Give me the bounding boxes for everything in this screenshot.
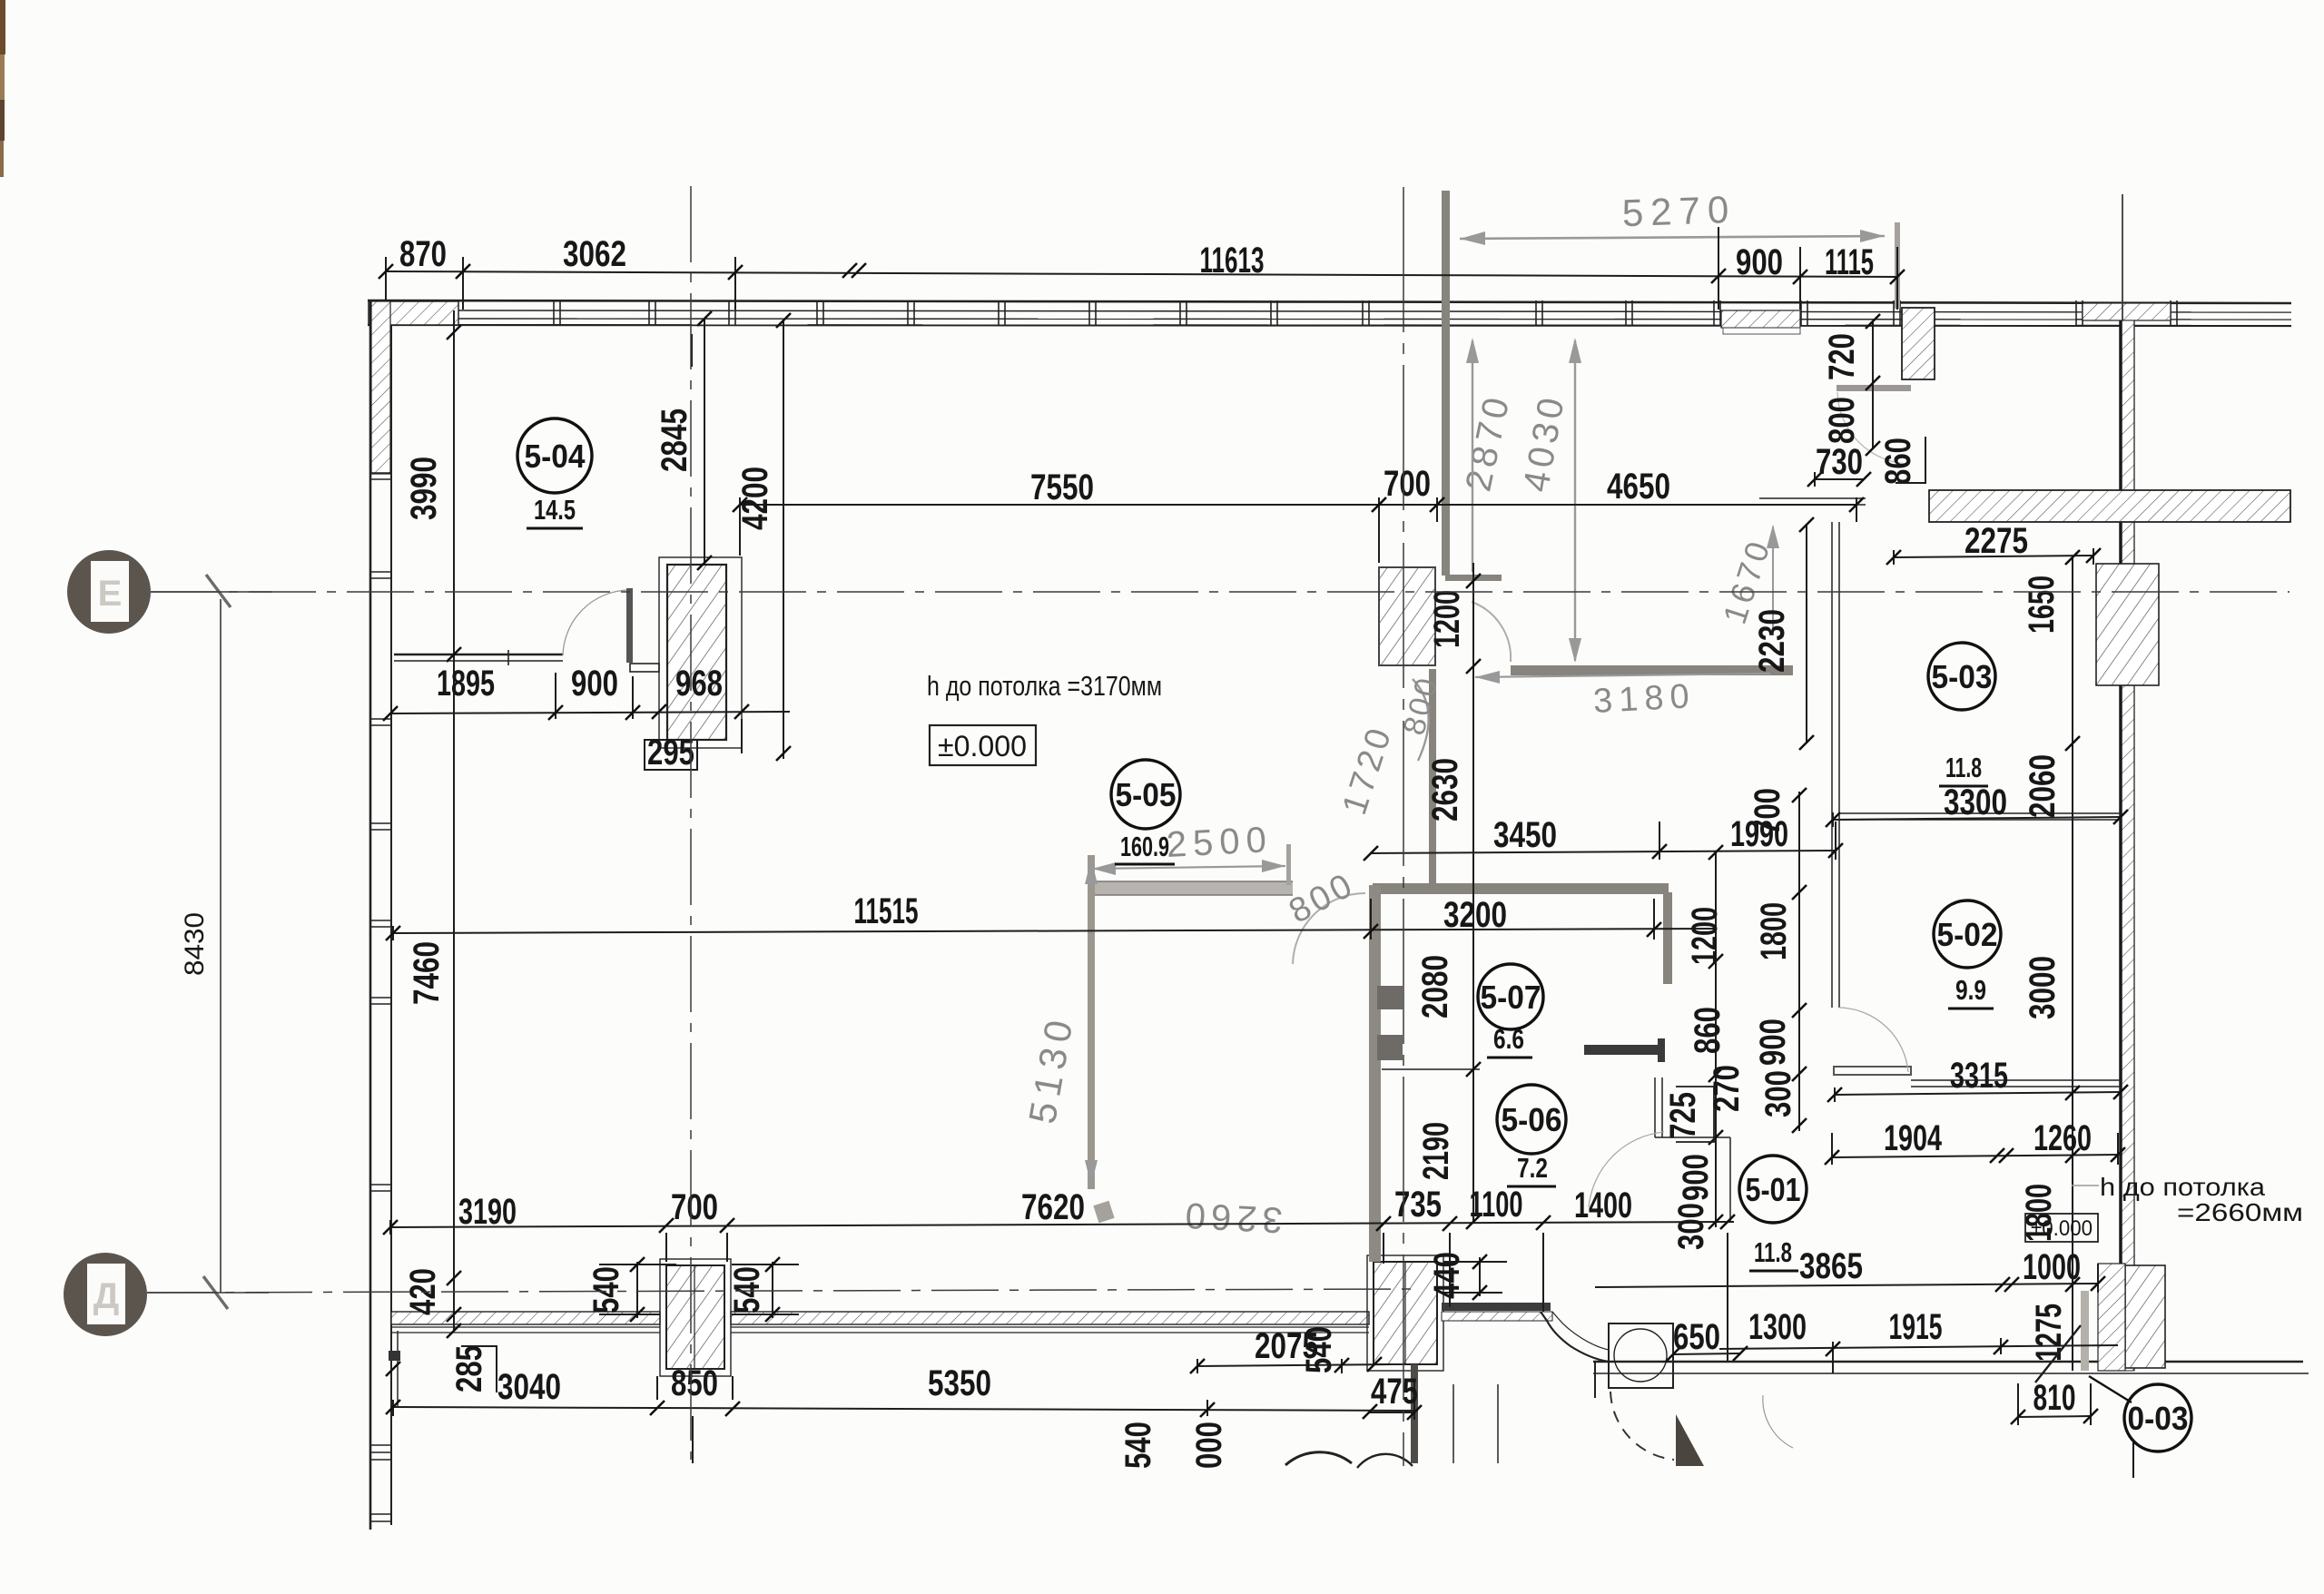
3990/7460/420 vertical line x500 — [453, 310, 455, 1331]
svg-text:=2660мм: =2660мм — [2177, 1198, 2303, 1226]
break on 1904 — [1990, 1148, 2004, 1163]
svg-text:160.9: 160.9 — [1120, 831, 1169, 862]
room label 5-05 — [1111, 760, 1180, 864]
east exterior wall — [2121, 320, 2134, 1371]
svg-text:8430: 8430 — [180, 912, 210, 976]
interior thick hatched wall (top of 5-03) — [1929, 490, 2290, 522]
svg-text:2500: 2500 — [1166, 820, 1274, 865]
glazed shaft box in room 5-04 — [659, 557, 742, 748]
475 dim — [1370, 1412, 1414, 1413]
long bottom chain y1349 — [390, 1222, 1734, 1227]
810 dim y1560 — [2018, 1416, 2091, 1417]
svg-text:900: 900 — [1676, 1154, 1716, 1201]
dim 295 boxed — [645, 733, 697, 772]
svg-text:5-02: 5-02 — [1937, 916, 1998, 953]
svg-text:5-06: 5-06 — [1502, 1101, 1562, 1138]
svg-text:3040: 3040 — [497, 1367, 561, 1407]
svg-text:1115: 1115 — [1825, 242, 1874, 282]
south exterior wall band (left of SW column) — [391, 1312, 660, 1333]
svg-text:3300: 3300 — [1944, 782, 2007, 822]
3315 ticks — [1827, 1087, 1842, 1102]
room label 5-01 — [1739, 1156, 1807, 1271]
svg-text:735: 735 — [1394, 1185, 1442, 1225]
SE hatched column — [2125, 1265, 2165, 1368]
svg-text:2845: 2845 — [655, 408, 694, 472]
handwritten 2500 — [1092, 820, 1291, 885]
3300 dim y902 — [1833, 817, 2121, 820]
top chain extension lines — [385, 257, 387, 300]
dim 285 boxed — [449, 1345, 497, 1392]
lower-floor door arc left of 5-01 — [1763, 1395, 1793, 1448]
SW hatched column with casing — [660, 1259, 731, 1376]
svg-text:900: 900 — [1736, 242, 1783, 282]
x1890 ticks — [1709, 845, 1723, 860]
1904/1260 dim y1273 — [1832, 1155, 2118, 1157]
door arc 5-01 entry — [1589, 1132, 1664, 1207]
chain y939 ticks — [1364, 846, 1378, 861]
730 ticks — [1807, 472, 1822, 487]
svg-text:700: 700 — [1384, 464, 1431, 504]
chain y1026 ticks — [386, 926, 400, 940]
grid axis vertical x1546 — [1403, 187, 1404, 1466]
entry door dashed arc bottom right — [1610, 1392, 1674, 1460]
svg-text:540: 540 — [586, 1266, 626, 1314]
handwritten 5130 (rotated) — [1020, 859, 1098, 1186]
north band window mullions — [554, 300, 2177, 325]
1895/900/968 dim line y784 — [390, 712, 790, 713]
5-03 / 5-02 divider wall — [1839, 813, 2121, 820]
540 column ticks — [630, 1257, 645, 1272]
svg-text:800: 800 — [1822, 397, 1862, 444]
handwritten 3180 dim — [1475, 671, 1770, 721]
svg-text:3315: 3315 — [1950, 1056, 2008, 1096]
x1982 ticks — [1792, 788, 1807, 802]
svg-text:3450: 3450 — [1493, 815, 1557, 855]
svg-text:3200: 3200 — [1443, 895, 1507, 935]
3300 ticks — [1826, 812, 1840, 827]
dim 1275 with slash — [2029, 1304, 2081, 1382]
svg-text:14.5: 14.5 — [534, 494, 576, 526]
svg-text:1915: 1915 — [1889, 1307, 1943, 1347]
handwritten 5270 with dim arrows — [1460, 188, 1900, 309]
3315 dim y1204 — [1835, 1092, 2121, 1095]
5-02 / 5-01 divider wall — [1911, 1080, 2121, 1087]
thin wall stub left of 5-03 hatched wall — [1759, 498, 1866, 505]
svg-text:5-07: 5-07 — [1481, 979, 1541, 1016]
svg-text:Е: Е — [98, 574, 123, 614]
room label 5-03 — [1928, 643, 1995, 786]
svg-text:870: 870 — [399, 234, 447, 274]
diagonal gray axis ticks for 8430 — [203, 575, 231, 1309]
2075/540 chain y1503 — [1197, 1364, 1392, 1366]
dark riser bar below S-mid column — [1411, 1364, 1418, 1463]
svg-text:±0.000: ±0.000 — [938, 730, 1027, 763]
pencil wall: hall top vertical (x~1592) — [1442, 191, 1450, 576]
svg-text:11515: 11515 — [854, 891, 919, 931]
door to 5-02 (leaf + swing) — [1834, 1008, 1911, 1075]
pencil door swing (800 opening into 5-05) — [1293, 893, 1365, 964]
720/800 vertical x2063 — [1872, 321, 1874, 448]
svg-text:±0.000: ±0.000 — [2031, 1216, 2093, 1241]
svg-text:1904: 1904 — [1884, 1118, 1943, 1158]
note: ceiling height 2660 — [2072, 1173, 2303, 1226]
svg-text:1260: 1260 — [2033, 1118, 2092, 1158]
svg-text:540: 540 — [1299, 1326, 1339, 1373]
dim 860 (top right, bracket) — [1878, 437, 1925, 485]
svg-text:6.6: 6.6 — [1493, 1023, 1524, 1055]
pencil wall: 3180 top of 5-01 zone — [1511, 665, 1793, 675]
dark door triangle bottom right — [1676, 1414, 1704, 1466]
svg-text:9.9: 9.9 — [1955, 974, 1986, 1006]
grid axis vertical x761 — [690, 186, 692, 1460]
svg-text:1300: 1300 — [1748, 1307, 1807, 1347]
svg-text:300: 300 — [1758, 1070, 1798, 1117]
pencil wall: right of 5-07 — [1663, 892, 1672, 984]
svg-text:2060: 2060 — [2023, 754, 2063, 818]
elevation box 0.000 (right) — [2025, 1214, 2098, 1242]
chain y1349 ticks — [383, 1220, 398, 1235]
svg-text:3260: 3260 — [1179, 1195, 1284, 1240]
west wall corner hatched pier — [371, 301, 390, 474]
south exterior wall (room 5-01, bottom edge) — [1593, 1362, 2309, 1373]
handwritten smudge right of 7620 — [1093, 1201, 1114, 1224]
hatched window pier top right — [2083, 303, 2171, 320]
tick marks (45deg) — [379, 263, 2128, 1424]
2080/2190 chain x1623 — [1472, 563, 1474, 1224]
right interior chain x2283 — [2072, 557, 2073, 1371]
handwritten 2870 (rotated) with arrow line — [1458, 338, 1518, 572]
pencil wall below junction column — [1429, 669, 1436, 883]
2275 dim y614 — [1894, 556, 2093, 557]
break mark on y297 — [842, 263, 857, 278]
lower-floor second arc (cut) — [1357, 1454, 1413, 1468]
top chain dim line y297 — [386, 271, 1897, 277]
vertical dimension texts — [180, 333, 2081, 1469]
east hatched column (mid, room 5-03/5-02) — [2096, 564, 2159, 685]
west band window mullions — [370, 473, 391, 1521]
bottom chain y1550 — [393, 1407, 1414, 1411]
1300/1915 ticks — [1826, 1342, 1840, 1356]
810 ticks — [2011, 1410, 2025, 1424]
small dark block on west wall below — [389, 1351, 400, 1361]
svg-text:3990: 3990 — [404, 457, 444, 520]
svg-text:h до потолка: h до потолка — [2100, 1173, 2265, 1201]
right chain x2283 ticks — [2065, 550, 2080, 565]
1904/1260 ticks — [1825, 1150, 1839, 1165]
730 dim y528 — [1815, 478, 1864, 480]
svg-text:3190: 3190 — [458, 1192, 517, 1232]
entry door gray band in east wall — [2081, 1291, 2089, 1371]
NE wall pier below window band — [1902, 308, 1935, 379]
svg-text:730: 730 — [1816, 442, 1863, 482]
svg-text:900: 900 — [571, 664, 618, 704]
misc extension below 850 — [692, 1416, 694, 1463]
svg-text:3180: 3180 — [1592, 677, 1697, 721]
room 5-04 south wall with door — [394, 650, 563, 665]
svg-text:720: 720 — [1822, 333, 1862, 380]
svg-text:1200: 1200 — [1427, 590, 1467, 648]
handwritten paren — [1413, 679, 1429, 761]
dark door frame blocks on 5-06 west wall — [1377, 986, 1403, 1009]
svg-text:4650: 4650 — [1607, 467, 1670, 507]
chain y297 ticks — [379, 264, 393, 279]
axis E marker — [67, 550, 151, 634]
svg-text:475: 475 — [1371, 1372, 1418, 1412]
room label 5-07 — [1478, 964, 1543, 1058]
svg-text:2080: 2080 — [1415, 955, 1455, 1018]
washer box — [1609, 1323, 1673, 1388]
y784 ticks — [383, 706, 398, 721]
8430 vertical line x243 — [220, 599, 222, 1293]
2230 chain x1990 — [1806, 525, 1807, 743]
pencil wall: top of 5-07/5-06 — [1373, 883, 1669, 894]
axis D line — [147, 1289, 1412, 1293]
room label 5-04 — [517, 418, 592, 528]
5-06 south wall (dark) — [1442, 1303, 1552, 1321]
4200 vertical line x863 — [783, 320, 784, 759]
grid axis vertical x2338 — [2122, 194, 2123, 320]
x2063 ticks — [1866, 314, 1880, 329]
pencil wall: west of 5-07/5-06 — [1369, 885, 1381, 1262]
svg-text:2275: 2275 — [1965, 521, 2028, 561]
svg-text:700: 700 — [671, 1187, 718, 1227]
svg-text:900: 900 — [1753, 1018, 1793, 1066]
svg-text:3865: 3865 — [1799, 1246, 1863, 1286]
svg-text:11.8: 11.8 — [1754, 1236, 1792, 1268]
svg-text:440: 440 — [1427, 1252, 1467, 1299]
x1623 ticks — [1466, 1062, 1481, 1077]
svg-text:1275: 1275 — [2029, 1304, 2069, 1362]
niche wall right of 5-06 — [1655, 1077, 1730, 1222]
svg-text:285: 285 — [449, 1345, 489, 1392]
svg-text:000: 000 — [1189, 1422, 1229, 1469]
svg-text:5350: 5350 — [928, 1363, 991, 1403]
svg-text:5-01: 5-01 — [1746, 1171, 1801, 1208]
svg-text:1100: 1100 — [1470, 1185, 1523, 1225]
1300/1915 dim y1483 — [1719, 1345, 2118, 1349]
svg-text:300: 300 — [1671, 1203, 1711, 1250]
door 5-07 top-right dark leaf — [1584, 1045, 1663, 1055]
door 5-04 leaf and swing — [563, 588, 659, 672]
svg-text:5-04: 5-04 — [525, 438, 586, 475]
440 ticks near S-mid column — [1479, 1257, 1481, 1296]
svg-text:7620: 7620 — [1021, 1187, 1085, 1227]
svg-text:2190: 2190 — [1416, 1122, 1456, 1180]
svg-text:1895: 1895 — [437, 664, 495, 704]
west exterior window-wall band — [370, 300, 391, 1530]
pencil wall: 2500 partition (horizontal band) — [1095, 881, 1293, 895]
svg-text:860: 860 — [1878, 438, 1918, 485]
7550/700/4650 dim line y555 — [740, 504, 1856, 506]
2275 ticks — [1886, 550, 1901, 565]
room label 5-02 — [1934, 900, 2001, 1009]
3865 ticks + break — [2091, 1276, 2105, 1291]
south exterior wall band (between columns) — [731, 1312, 1369, 1333]
lower-floor room circle arc 4-04 (cut) — [1285, 1452, 1352, 1465]
svg-text:810: 810 — [2033, 1378, 2076, 1418]
5-07 right chain x1890 — [1715, 852, 1717, 1227]
svg-text:2230: 2230 — [1752, 609, 1792, 673]
wall west of 5-03 (vertical, thin) — [1832, 522, 1839, 1008]
295/285 ticks — [652, 704, 666, 719]
junction hatched column (hall) — [1379, 567, 1435, 665]
svg-text:5-05: 5-05 — [1116, 776, 1177, 813]
svg-text:11.8: 11.8 — [1945, 752, 1982, 783]
S-mid hatched column with casing — [1367, 1255, 1443, 1371]
3450/1990 dim line y939 — [1371, 851, 1836, 853]
handwritten 4030 (rotated) with arrow line — [1516, 338, 1581, 663]
svg-text:7.2: 7.2 — [1517, 1152, 1548, 1184]
left interior chain x1982 (5-02) — [1798, 792, 1800, 1131]
440 ticks — [1472, 1255, 1487, 1269]
x500 ticks — [447, 325, 461, 339]
svg-text:540: 540 — [727, 1266, 767, 1314]
elevation box 0.000 (center) — [930, 725, 1036, 765]
svg-text:650: 650 — [1673, 1317, 1720, 1357]
svg-text:1000: 1000 — [2023, 1247, 2081, 1287]
svg-text:540: 540 — [1118, 1422, 1158, 1469]
svg-text:3062: 3062 — [563, 234, 626, 274]
dim 725 boxed — [1663, 1087, 1714, 1142]
axis D marker — [64, 1253, 147, 1336]
650 ticks — [1666, 1347, 1680, 1362]
svg-text:7460: 7460 — [407, 941, 447, 1005]
2845 vertical line x776 — [704, 319, 705, 563]
room label 0-03 with leader — [2089, 1376, 2191, 1478]
svg-text:h до потолка =3170мм: h до потолка =3170мм — [927, 670, 1162, 702]
x863 ticks — [776, 313, 791, 328]
svg-text:968: 968 — [675, 664, 723, 704]
svg-text:1400: 1400 — [1574, 1186, 1632, 1225]
lower-floor fragment: stub walls below plan — [398, 1331, 1498, 1463]
svg-text:4200: 4200 — [735, 467, 775, 530]
5-07/5-06 divider stub — [1382, 1068, 1480, 1070]
x776 ticks — [697, 311, 712, 326]
svg-text:725: 725 — [1663, 1092, 1703, 1139]
pencil door swing (hall jog) — [1472, 602, 1511, 662]
svg-text:860: 860 — [1688, 1007, 1728, 1054]
chain y555 ticks — [733, 497, 747, 512]
svg-text:0-03: 0-03 — [2128, 1400, 2189, 1437]
north wall corner hatched pier — [369, 301, 458, 325]
svg-text:700: 700 — [1748, 788, 1787, 835]
pencil wall: 5130 partition (vertical) — [1088, 855, 1095, 1189]
pencil wall jog stub — [1445, 575, 1502, 581]
svg-text:2630: 2630 — [1425, 758, 1465, 822]
svg-text:Д: Д — [94, 1276, 120, 1316]
hatched sill piece near x1900 — [1721, 310, 1800, 334]
svg-text:850: 850 — [671, 1363, 718, 1403]
svg-text:5-03: 5-03 — [1932, 658, 1993, 695]
svg-text:7550: 7550 — [1030, 467, 1094, 507]
svg-text:270: 270 — [1707, 1065, 1747, 1112]
2230 ticks — [1799, 517, 1814, 532]
room label 5-06 — [1497, 1085, 1566, 1186]
svg-text:1200: 1200 — [1685, 907, 1725, 965]
svg-text:1800: 1800 — [1754, 902, 1794, 960]
svg-text:295: 295 — [647, 733, 694, 772]
svg-text:1650: 1650 — [2022, 576, 2062, 634]
3865/1000 dim y1415 — [1595, 1284, 2098, 1287]
scan edge artifact (wood table) top-left — [0, 0, 5, 177]
540/540 around SW column — [636, 1262, 638, 1318]
2075 ticks — [1190, 1359, 1205, 1373]
11515/3200 dim line y1026 — [393, 929, 1716, 933]
svg-text:11613: 11613 — [1200, 241, 1265, 280]
curved wall transition to washer niche — [1541, 1312, 1609, 1362]
north exterior window-wall band — [368, 300, 2291, 326]
axis E line — [151, 591, 2290, 593]
650 dim y1492 — [1673, 1353, 1740, 1354]
handwritten 1670 (rotated) with arrow — [1716, 525, 1779, 635]
door to 5-03 (gray leaf + swing) — [1837, 385, 1911, 464]
chain y1550 ticks — [386, 1400, 400, 1414]
svg-text:3000: 3000 — [2023, 956, 2063, 1019]
